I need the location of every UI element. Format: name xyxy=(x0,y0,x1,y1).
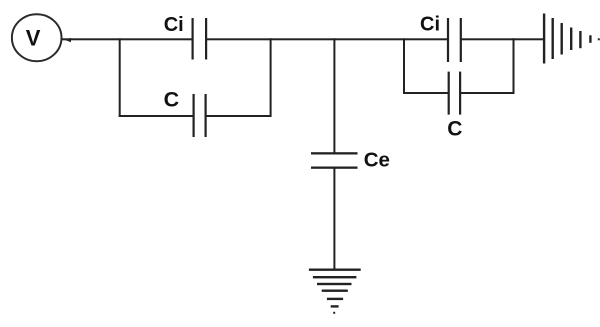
wire: main horizontal segment A (voltmeter to left Ci plate) xyxy=(62,38,194,40)
wire: right block bottom right segment xyxy=(460,92,514,94)
capacitor Ci (right) plates xyxy=(447,18,449,62)
svg-text:C: C xyxy=(164,88,180,112)
svg-text:C: C xyxy=(447,118,462,141)
voltmeter V1 circle xyxy=(12,14,62,61)
svg-text:Ci: Ci xyxy=(164,14,184,36)
wire: left block bottom right segment xyxy=(206,115,272,117)
wire: right block bottom left segment xyxy=(403,92,449,94)
ground (chassis, sideways) at right xyxy=(543,14,600,64)
wire: vertical from Ce to ground xyxy=(333,169,335,271)
capacitor Ce plates xyxy=(311,152,358,154)
wire: main horizontal segment B (left Ci to right Ci) xyxy=(206,38,448,40)
svg-text:V: V xyxy=(26,26,41,51)
wire: left block bottom left segment xyxy=(119,115,194,117)
wire: right block right vertical xyxy=(513,38,515,94)
svg-text:Ce: Ce xyxy=(364,148,390,171)
wire: left block right vertical xyxy=(270,38,272,117)
capacitor C (right) plates xyxy=(448,72,450,115)
ground (earth) below Ce xyxy=(309,269,361,314)
svg-text:Ci: Ci xyxy=(420,14,440,36)
wire: right block left vertical xyxy=(403,38,405,94)
node: center junction vertical wire to Ce xyxy=(333,38,335,154)
capacitor C (left) plates xyxy=(193,94,195,137)
capacitor Ci (left) plates xyxy=(192,18,194,60)
node: left junction vertical wire xyxy=(119,38,121,117)
wire: main horizontal segment C (right Ci to ground) xyxy=(461,38,544,40)
arrowhead on wire pointing to voltmeter xyxy=(65,38,72,42)
